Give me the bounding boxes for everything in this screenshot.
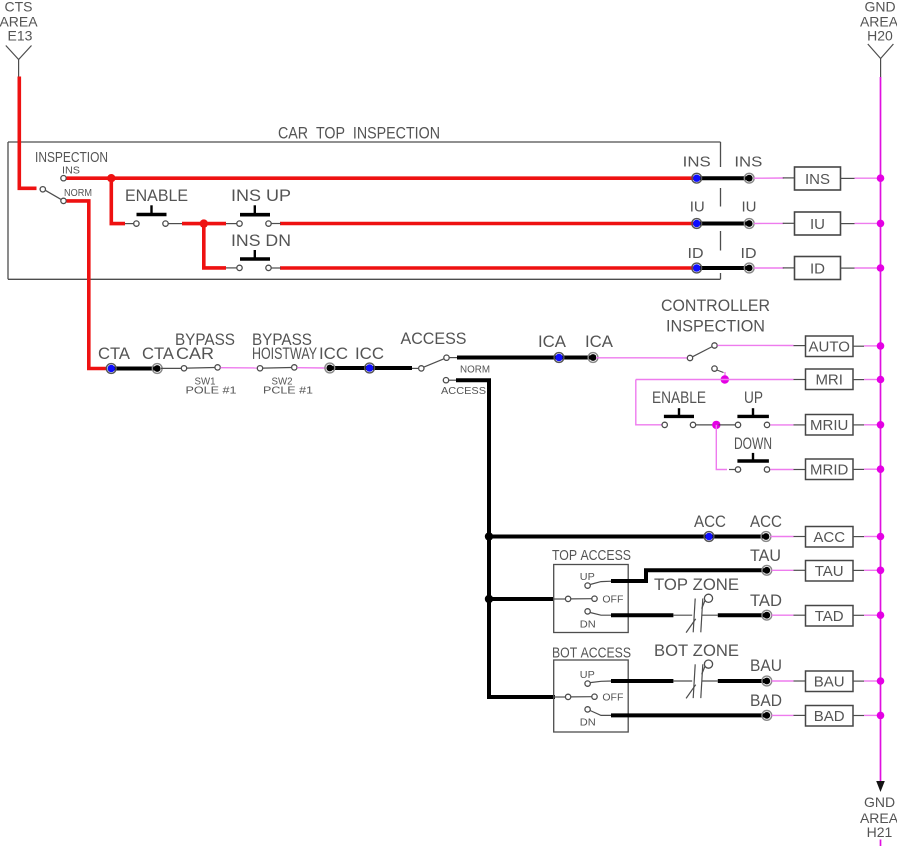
junction bus MRIU <box>877 421 885 429</box>
wire thick TAD path left <box>611 613 673 617</box>
wire lead ACC box left <box>794 536 806 538</box>
wire pink UP to MRIU box <box>771 424 794 426</box>
svg-text:ENABLE: ENABLE <box>652 388 706 407</box>
wire red IU row to blue dot <box>280 222 696 226</box>
pushbutton DOWN bar <box>737 453 769 461</box>
svg-text:IU: IU <box>810 216 825 233</box>
switch SW2 left contact <box>257 366 262 371</box>
pushbutton ENABLE right contact <box>163 221 168 226</box>
wire lead BAD box right <box>853 715 864 717</box>
svg-text:CAR TOP INSPECTION: CAR TOP INSPECTION <box>278 124 440 143</box>
junction bus AUTO <box>877 342 885 350</box>
svg-text:BAD: BAD <box>750 691 782 710</box>
svg-text:IU: IU <box>742 199 757 216</box>
svg-text:NORM: NORM <box>460 365 490 376</box>
switch TOP ACCESS common contact <box>565 596 570 601</box>
switch INSPECTION NORM contact <box>61 198 66 203</box>
switch BOT ACCESS common contact <box>565 694 570 699</box>
svg-text:IU: IU <box>690 199 705 216</box>
pushbutton ENABLE mr left contact <box>662 422 667 427</box>
wire thick TAU path <box>611 570 764 581</box>
switch SW2 bypass hoistway lever <box>263 367 292 370</box>
switch INSPECTION lever <box>45 190 61 199</box>
wire thick ACCESS branch down <box>456 380 555 697</box>
junction black TOP ACCESS tap <box>485 595 493 603</box>
switch CONTROLLER MRI contact <box>712 366 717 371</box>
wire pink MRI box to bus <box>864 379 880 381</box>
wire pink ID terminal to box <box>754 267 784 269</box>
svg-text:ID: ID <box>741 245 757 262</box>
junction bus TAU <box>877 567 885 575</box>
wire thick to TOP ACCESS common <box>489 597 553 601</box>
net box MRI <box>806 369 854 390</box>
wire pink MRI row down to ENABLE <box>636 380 662 425</box>
label SW2 PCLE #1 <box>263 377 314 397</box>
switch ACCESS common contact <box>419 366 424 371</box>
junction bus TAD <box>877 611 885 619</box>
svg-text:GND: GND <box>864 0 895 15</box>
wire pink TAU terminal to box <box>772 569 794 571</box>
junction bus MRID <box>877 465 885 473</box>
wire pink INS box to bus <box>855 177 880 179</box>
net box IU <box>795 212 841 235</box>
net box BAU <box>806 671 854 692</box>
wire red down to ENABLE <box>111 178 125 223</box>
svg-text:ACC: ACC <box>750 512 782 531</box>
wire lead TAD box left <box>794 614 806 616</box>
svg-text:UP: UP <box>580 572 595 583</box>
pushbutton DOWN left contact <box>735 467 740 472</box>
switch INSPECTION INS contact <box>61 176 66 181</box>
wire magenta bus stub below arrow <box>880 840 882 847</box>
svg-text:GND: GND <box>864 794 895 810</box>
net box MRID <box>806 459 854 480</box>
pushbutton INS DN left contact <box>237 265 242 270</box>
terminal INS blue <box>692 173 702 183</box>
svg-text:ACCESS: ACCESS <box>441 386 486 397</box>
wire lead MRI box left <box>794 379 806 381</box>
svg-text:ICC: ICC <box>319 344 348 363</box>
svg-text:CAR: CAR <box>176 344 214 363</box>
wire lead MRI box right <box>853 379 864 381</box>
terminal ACC blue <box>704 532 714 542</box>
svg-text:INSPECTION: INSPECTION <box>666 317 765 336</box>
svg-text:MRID: MRID <box>810 462 848 479</box>
svg-text:CTS: CTS <box>5 0 33 15</box>
terminal CTA blue <box>106 364 116 374</box>
switch BOT ACCESS DN contact <box>585 707 590 712</box>
label BYPASS HOISTWAY <box>252 330 317 363</box>
wire lead ENABLE mr to junction <box>696 424 714 426</box>
junction black ACC tap <box>485 532 493 540</box>
pushbutton UP left contact <box>735 422 740 427</box>
label BYPASS CAR <box>175 330 235 363</box>
terminal ICA black <box>588 353 598 363</box>
wire thick BAD path <box>611 713 764 717</box>
junction bus IU <box>877 220 885 228</box>
wire pink MRI row <box>636 379 794 381</box>
svg-text:INS: INS <box>734 154 762 171</box>
switch BOT ACCESS UP contact <box>585 681 590 686</box>
svg-text:ACC: ACC <box>813 529 845 546</box>
terminal ID black <box>744 263 754 273</box>
wire pink INS terminal to box <box>754 177 784 179</box>
wire lead BAD box left <box>794 714 806 716</box>
terminal ICC blue <box>365 363 375 373</box>
wire lead DOWN in <box>729 469 735 471</box>
terminal ICA blue <box>554 353 564 363</box>
wire lead AUTO box left <box>794 345 806 347</box>
wire lead CTA to SW1 <box>161 367 181 369</box>
wire pink TAD terminal to box <box>772 614 794 616</box>
wire thick TAD path right <box>718 613 764 617</box>
wire pink IU terminal to box <box>754 222 784 224</box>
wire thick BAU path left <box>611 679 673 683</box>
wire pink IU box to bus <box>855 222 880 224</box>
pushbutton INS UP left contact <box>237 221 242 226</box>
junction bus BAU <box>877 677 885 685</box>
svg-text:INS: INS <box>805 171 830 188</box>
junction red ENABLE out <box>200 219 208 227</box>
wire lead BOT ACCESS common <box>553 696 565 698</box>
wire red NORM down to CTA <box>67 201 108 369</box>
switch TOP ACCESS OFF contact <box>592 596 597 601</box>
terminal TAU black <box>762 565 772 575</box>
svg-text:MRIU: MRIU <box>810 417 848 434</box>
wire lead MRID box left <box>794 469 806 471</box>
switch CONTROLLER INSPECTION lever <box>692 347 712 357</box>
net box ID <box>795 257 841 280</box>
wire lead junction to UP button <box>719 424 736 426</box>
wire pink MRID box to bus <box>864 468 880 470</box>
wire lead INS DN out <box>271 267 281 269</box>
svg-text:INS: INS <box>683 154 711 171</box>
pushbutton INS DN right contact <box>266 265 271 270</box>
svg-text:DN: DN <box>580 620 596 631</box>
wire pink ID box to bus <box>855 267 880 269</box>
svg-text:POLE #1: POLE #1 <box>186 386 238 397</box>
wire red from CTS E13 down <box>19 77 36 189</box>
junction magenta MRI row <box>721 375 729 383</box>
svg-text:ENABLE: ENABLE <box>125 186 188 205</box>
switch CONTROLLER AUTO contact <box>712 343 717 348</box>
pushbutton UP bar <box>737 408 769 416</box>
wire lead BAU box left <box>794 680 806 682</box>
svg-text:BOT ZONE: BOT ZONE <box>654 641 739 660</box>
terminal INS black <box>744 173 754 183</box>
wire lead INS box right <box>841 177 855 179</box>
off-page connector fork CTS <box>6 46 32 78</box>
svg-text:ACCESS: ACCESS <box>401 329 467 348</box>
enclosure box BOT ACCESS <box>554 660 629 732</box>
switch TOP ACCESS lever to OFF <box>571 598 592 600</box>
wire lead UP bot contact <box>590 681 612 683</box>
net box ACC <box>806 527 854 548</box>
junction bus ID <box>877 264 885 272</box>
wire pink BAD box to bus <box>864 714 880 716</box>
svg-text:BAD: BAD <box>814 708 845 725</box>
terminal TAD black <box>762 610 772 620</box>
pushbutton ENABLE mr right contact <box>690 422 695 427</box>
off-page connector fork GND <box>868 44 894 78</box>
svg-text:OFF: OFF <box>602 595 623 606</box>
switch SW1 left contact <box>181 366 186 371</box>
svg-text:OFF: OFF <box>602 693 623 704</box>
wire lead BAU box right <box>853 680 864 682</box>
enclosure box CAR TOP INSPECTION <box>8 142 721 279</box>
terminal ID blue <box>692 263 702 273</box>
wire lead MRID box right <box>853 468 864 470</box>
wire thick NORM row to ICA <box>457 356 596 360</box>
svg-text:ICA: ICA <box>538 332 567 351</box>
node CTS AREA E13 label <box>0 0 38 44</box>
wire red INS row to blue dot <box>67 176 697 180</box>
pushbutton INS DN bar <box>240 250 270 259</box>
wire lead DN contact <box>590 613 612 616</box>
wire pink SW2 to ICC <box>297 367 326 369</box>
pushbutton DOWN right contact <box>764 467 769 472</box>
switch TOP ACCESS UP contact <box>585 583 590 588</box>
arrow to GND AREA H21 <box>876 781 885 792</box>
junction magenta ENABLE out <box>712 421 720 429</box>
wire thick CTA link <box>111 367 156 371</box>
svg-text:TAU: TAU <box>815 563 844 580</box>
svg-text:BOT ACCESS: BOT ACCESS <box>552 645 631 662</box>
pushbutton ENABLE bar <box>137 205 167 214</box>
svg-text:NORM: NORM <box>64 188 92 199</box>
wire lead TOP ACCESS common <box>553 598 565 600</box>
wire pink MRIU box to bus <box>864 424 880 426</box>
wire lead ENABLE in <box>125 223 134 225</box>
svg-text:PCLE #1: PCLE #1 <box>263 386 314 397</box>
wire red junction down to INS DN <box>204 224 226 268</box>
svg-text:TAU: TAU <box>750 546 781 565</box>
wire thick ACC row <box>489 535 763 539</box>
svg-text:CONTROLLER: CONTROLLER <box>661 296 770 315</box>
svg-text:ICA: ICA <box>585 332 614 351</box>
svg-text:ID: ID <box>810 261 825 278</box>
wire lead DN bot contact <box>590 711 612 716</box>
svg-text:HOISTWAY: HOISTWAY <box>252 344 317 363</box>
wire lead MRIU box right <box>853 424 864 426</box>
switch BOT ACCESS OFF contact <box>592 694 597 699</box>
net box AUTO <box>806 336 854 357</box>
svg-text:TOP ZONE: TOP ZONE <box>654 575 739 594</box>
wire lead IU box left <box>783 222 795 224</box>
net box TAD <box>806 606 854 627</box>
switch INSPECTION common contact <box>40 187 45 192</box>
net box BAD <box>806 706 854 727</box>
node GND AREA H20 label <box>860 0 897 44</box>
wire lead ID box left <box>783 267 795 269</box>
wire thick ICC link <box>330 366 412 370</box>
switch SW1 right contact <box>215 365 220 370</box>
wire lead ID box right <box>841 267 855 269</box>
enclosure box TOP ACCESS <box>554 565 629 633</box>
wire pink AUTO row <box>718 344 794 346</box>
svg-text:DOWN: DOWN <box>734 434 772 453</box>
junction bus BAD <box>877 712 885 720</box>
wire lead INS DN in <box>226 267 237 269</box>
wire pink ACC terminal to box <box>771 536 794 538</box>
wire lead ACCESS contact <box>449 379 457 381</box>
label CONTROLLER INSPECTION <box>661 296 770 336</box>
svg-text:AUTO: AUTO <box>808 339 849 356</box>
junction bus ACC <box>877 533 885 541</box>
svg-text:ID: ID <box>688 245 704 262</box>
svg-text:E13: E13 <box>8 28 33 44</box>
svg-text:INSPECTION: INSPECTION <box>35 149 108 166</box>
wire lead junction to INS UP <box>204 222 226 226</box>
terminal ICC black <box>325 363 335 373</box>
node GND AREA H21 label <box>860 794 897 840</box>
wire red ENABLE out short <box>182 222 201 226</box>
svg-text:DN: DN <box>580 718 596 729</box>
junction bus INS <box>877 174 885 182</box>
wire pink TAU box to bus <box>864 569 880 571</box>
pushbutton UP right contact <box>764 422 769 427</box>
svg-text:INS: INS <box>62 166 80 177</box>
wire lead MRI contact drop <box>717 370 724 373</box>
wire lead INS box left <box>783 177 795 179</box>
switch SW2 right contact <box>292 365 297 370</box>
svg-text:UP: UP <box>580 670 595 681</box>
wire lead UP contact <box>590 581 612 584</box>
svg-text:ACC: ACC <box>694 512 726 531</box>
wire lead AUTO box right <box>853 345 864 347</box>
switch ACCESS ACCESS contact <box>443 378 448 383</box>
wire thick ID terminal link <box>697 266 752 270</box>
wire pink junction down to DOWN button <box>716 425 727 470</box>
wire lead TAU box left <box>794 569 806 571</box>
svg-text:TOP ACCESS: TOP ACCESS <box>552 547 631 564</box>
switch CONTROLLER common contact <box>687 355 692 360</box>
pushbutton INS UP right contact <box>266 221 271 226</box>
wire magenta ground bus <box>880 77 882 782</box>
net box INS <box>795 167 841 190</box>
svg-text:MRI: MRI <box>815 372 843 389</box>
pushbutton ENABLE left contact <box>134 221 139 226</box>
svg-text:TAD: TAD <box>815 608 844 625</box>
switch TOP ZONE <box>673 594 717 632</box>
wire lead TAD box right <box>853 614 864 616</box>
terminal IU black <box>744 219 754 229</box>
wire pink BAU terminal to box <box>772 680 794 682</box>
wire pink AUTO box to bus <box>864 345 880 347</box>
svg-text:CTA: CTA <box>98 344 131 363</box>
svg-text:INS DN: INS DN <box>231 231 291 250</box>
terminal BAD black <box>762 711 772 721</box>
terminal CTA black <box>152 364 162 374</box>
wire lead INS UP in <box>226 223 237 225</box>
terminal BAU black <box>762 676 772 686</box>
net box MRIU <box>806 415 854 436</box>
switch BOT ACCESS lever to OFF <box>571 696 592 698</box>
switch ACCESS NORM contact <box>444 355 449 360</box>
wire pink BAD terminal to box <box>772 714 794 716</box>
wire red ENABLE to junction <box>168 223 182 225</box>
wire red ID row to blue dot <box>280 266 696 270</box>
wire thick IU terminal link <box>697 222 752 226</box>
switch ACCESS lever <box>424 359 445 368</box>
terminal ACC black <box>761 532 771 542</box>
svg-text:H20: H20 <box>867 28 893 44</box>
pushbutton ENABLE mr bar <box>664 408 694 416</box>
svg-text:ICC: ICC <box>355 344 384 363</box>
svg-text:INS UP: INS UP <box>231 186 291 205</box>
switch TOP ACCESS DN contact <box>585 609 590 614</box>
wire thick INS terminal link <box>697 176 752 180</box>
label SW1 POLE #1 <box>186 377 238 397</box>
svg-text:UP: UP <box>744 388 763 407</box>
svg-text:H21: H21 <box>867 824 893 840</box>
wire lead ACC box right <box>853 536 864 538</box>
wire pink BAU box to bus <box>864 680 880 682</box>
wire lead IU box right <box>841 223 855 225</box>
svg-text:TAD: TAD <box>750 591 782 610</box>
wire lead NORM contact <box>449 357 457 359</box>
wire thick BAU path right <box>718 679 764 683</box>
junction red INS row <box>107 174 115 182</box>
net box TAU <box>806 561 854 582</box>
wire pink ACC box to bus <box>864 536 880 538</box>
wire lead TAU box right <box>853 569 864 571</box>
switch BOT ZONE <box>673 660 717 698</box>
wire pink TAD box to bus <box>864 614 880 616</box>
terminal IU blue <box>692 219 702 229</box>
junction bus MRI <box>877 376 885 384</box>
pushbutton INS UP bar <box>240 205 270 214</box>
wire lead ICC to access switch <box>412 367 419 369</box>
wire pink ICA to controller switch <box>596 357 688 359</box>
wire lead INS UP out <box>271 223 281 225</box>
switch SW1 bypass car lever <box>187 367 215 370</box>
svg-text:BAU: BAU <box>814 674 845 691</box>
svg-text:BAU: BAU <box>750 656 782 675</box>
svg-text:CTA: CTA <box>142 344 175 363</box>
wire pink SW1 to SW2 <box>221 367 258 369</box>
wire lead MRIU box left <box>794 424 806 426</box>
wire pink DOWN to MRID box <box>771 469 794 471</box>
wire pink MRI contact drop <box>724 372 726 380</box>
